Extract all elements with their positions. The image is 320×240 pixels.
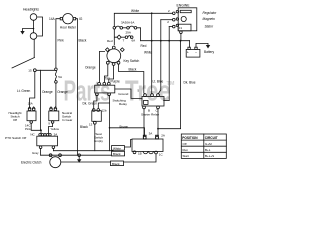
bottom connector B2	[132, 139, 163, 152]
wire switching relay right to starter relay	[115, 89, 142, 98]
svg-text:5A: 5A	[58, 75, 62, 79]
engine bottom terminal	[180, 31, 183, 34]
svg-text:14A: 14A	[49, 17, 56, 21]
wire brown to connector 3A	[110, 128, 145, 136]
svg-text:Dk. Blue: Dk. Blue	[184, 81, 196, 85]
headlight switch bottom terminal 14C	[30, 121, 33, 124]
node headlight ground junction	[33, 28, 35, 30]
battery BT1	[186, 49, 200, 57]
ground (bottom bus)	[78, 157, 80, 160]
svg-text:15: 15	[28, 69, 32, 73]
wire headlight parallel bracket	[37, 17, 43, 36]
wire battery +	[189, 41, 191, 48]
node fuse top	[55, 68, 58, 71]
red bus	[141, 40, 190, 42]
headlight lamp top	[30, 14, 37, 21]
wire black from key	[119, 64, 145, 94]
fuse 5A	[55, 71, 56, 81]
hour meter U1	[63, 14, 73, 24]
wire to ground	[23, 29, 34, 32]
svg-text:2A: 2A	[161, 134, 165, 138]
bus line1 white	[53, 150, 113, 152]
starter relay K2	[142, 97, 164, 107]
svg-text:Black: Black	[80, 125, 88, 129]
svg-text:15A: 15A	[28, 102, 33, 106]
svg-text:White: White	[144, 51, 152, 55]
label tag White	[112, 146, 125, 151]
regulator bar	[180, 10, 191, 12]
svg-text:13: 13	[89, 123, 93, 127]
svg-text:Headlights: Headlights	[23, 8, 39, 12]
svg-text:Black: Black	[113, 152, 121, 156]
svg-text:Ground: Ground	[118, 92, 128, 96]
svg-text:Regulator: Regulator	[203, 11, 218, 15]
svg-text:Off: Off	[183, 142, 187, 146]
label tag Black	[112, 151, 125, 156]
wire red from cluster	[137, 28, 141, 41]
wire hour meter right down (Black)	[76, 19, 78, 156]
svg-text:Tan: Tan	[105, 76, 110, 80]
svg-text:Lt. Green: Lt. Green	[17, 89, 31, 93]
svg-text:3A: 3A	[149, 132, 153, 136]
svg-text:Off: Off	[13, 118, 17, 122]
bus line3 black	[61, 154, 156, 162]
headlight lamp bottom	[30, 33, 37, 40]
PTO switch S3	[37, 136, 58, 146]
svg-text:White: White	[131, 9, 139, 13]
wire red cluster to key switch	[114, 29, 117, 45]
wire hour meter left down (Pink)	[56, 19, 60, 68]
wire orange to key switch	[100, 51, 105, 82]
svg-text:Black: Black	[79, 39, 87, 43]
svg-text:Relay: Relay	[119, 102, 127, 106]
svg-text:Magneto: Magneto	[203, 17, 216, 21]
svg-text:T: T	[123, 39, 125, 43]
switching relay K1	[95, 85, 115, 93]
node 15 terminal	[33, 69, 36, 72]
wire branch to seat switch 12b	[98, 103, 109, 109]
svg-text:Run: Run	[183, 148, 189, 152]
bus line2 black	[41, 154, 125, 156]
PTO bottom terminals	[39, 146, 42, 149]
node brown junction	[109, 127, 111, 129]
svg-text:POSITION: POSITION	[182, 136, 198, 140]
svg-text:IG: IG	[79, 17, 83, 21]
wires into starter relay top	[151, 13, 153, 93]
svg-text:PTO Switch Off: PTO Switch Off	[5, 136, 26, 140]
engine terminal 3 wire	[169, 26, 172, 28]
svg-text:B+L+S: B+L+S	[205, 154, 214, 158]
table POSITION/CIRCUIT	[181, 134, 226, 158]
wire C down	[157, 109, 158, 136]
wire 9 down to PTO	[49, 123, 53, 133]
svg-text:Pink: Pink	[25, 127, 31, 131]
wire 15 to fuse	[36, 69, 55, 71]
svg-text:Dk. Green: Dk. Green	[83, 102, 98, 106]
svg-text:Yellow: Yellow	[50, 127, 59, 131]
headlight switch S1	[28, 108, 31, 111]
svg-text:Hour Meter: Hour Meter	[60, 26, 77, 30]
svg-text:Start: Start	[183, 154, 190, 158]
svg-text:2A: 2A	[54, 132, 58, 136]
svg-text:Orange: Orange	[42, 90, 53, 94]
wire tan	[104, 64, 107, 82]
wire purple	[109, 65, 114, 82]
svg-text:White: White	[113, 146, 121, 150]
svg-text:Electric Clutch: Electric Clutch	[21, 161, 42, 165]
svg-text:CIRCUIT: CIRCUIT	[205, 136, 218, 140]
node white jct	[151, 12, 153, 14]
svg-text:3A30A 6A: 3A30A 6A	[121, 21, 134, 25]
watermark	[64, 76, 175, 108]
svg-text:ENGINE: ENGINE	[177, 4, 191, 8]
svg-text:Brown: Brown	[120, 125, 129, 129]
stator box	[178, 24, 191, 31]
wire gray to clutch bus	[40, 149, 42, 156]
svg-text:Pink: Pink	[58, 39, 65, 43]
wire between lamps	[33, 20, 35, 32]
svg-text:In Gear: In Gear	[62, 118, 72, 122]
wire B down	[143, 109, 145, 136]
svg-text:G+M: G+M	[205, 142, 212, 146]
svg-text:+: +	[187, 51, 189, 55]
wire seat switch down to bus	[94, 124, 96, 151]
headlight switch blade (open)	[12, 58, 34, 69]
svg-text:Battery: Battery	[204, 50, 215, 54]
electric clutch M1	[50, 157, 61, 168]
dk blue wire	[158, 41, 181, 129]
engine side terminals	[176, 10, 178, 12]
wire pto right terminal down	[52, 149, 54, 151]
ground (headlights)	[20, 31, 24, 35]
wire white top: cluster to engine	[114, 13, 172, 26]
svg-text:−: −	[195, 50, 197, 54]
svg-text:12b: 12b	[102, 109, 107, 113]
svg-text:B+L: B+L	[205, 148, 211, 152]
wire white label feed to connector	[125, 140, 133, 148]
svg-text:Black: Black	[112, 162, 120, 166]
svg-text:6A: 6A	[132, 39, 136, 43]
label tag Black2	[111, 161, 124, 166]
neutral switch bottom terminal 9	[51, 121, 54, 124]
svg-text:1B: 1B	[138, 152, 142, 156]
svg-text:Purple: Purple	[111, 80, 120, 84]
starter relay right wire	[164, 99, 170, 101]
svg-text:Orange: Orange	[57, 90, 68, 94]
wire battery - to ground arrow	[196, 43, 208, 47]
node fuse bottom	[55, 81, 58, 84]
key switch KS	[107, 49, 121, 63]
svg-text:Lt. Blue: Lt. Blue	[153, 80, 164, 84]
svg-text:Orange: Orange	[85, 66, 96, 70]
seat switch S4	[92, 111, 102, 122]
ground arrow (battery)	[206, 45, 210, 49]
engine terminal 2 wire	[161, 19, 173, 21]
svg-text:Stator: Stator	[205, 25, 214, 29]
svg-text:Black: Black	[129, 68, 137, 72]
svg-text:TM: TM	[167, 81, 175, 87]
neutral switch S2	[50, 108, 53, 111]
wire orange branch down to PTO	[39, 70, 41, 130]
svg-text:Empty: Empty	[94, 139, 103, 143]
wire switching relay lower-right down	[109, 96, 111, 151]
hour meter right terminal IG	[73, 18, 75, 20]
magneto circle	[181, 16, 186, 21]
svg-text:29A: 29A	[126, 31, 131, 35]
svg-text:Gray: Gray	[32, 151, 39, 155]
row2	[117, 35, 121, 39]
engine terminal 1	[173, 12, 176, 15]
wire 14C down to PTO	[31, 123, 41, 130]
wire headlights down	[33, 39, 35, 57]
svg-text:Key Switch: Key Switch	[124, 59, 140, 63]
node ground junction bottom	[78, 154, 81, 157]
wire fuse down to neutral switch	[55, 83, 57, 107]
svg-text:Red: Red	[141, 44, 147, 48]
svg-text:Red: Red	[107, 39, 113, 43]
wire 15 down Lt. Green	[30, 72, 35, 108]
wire dk green	[94, 96, 97, 110]
